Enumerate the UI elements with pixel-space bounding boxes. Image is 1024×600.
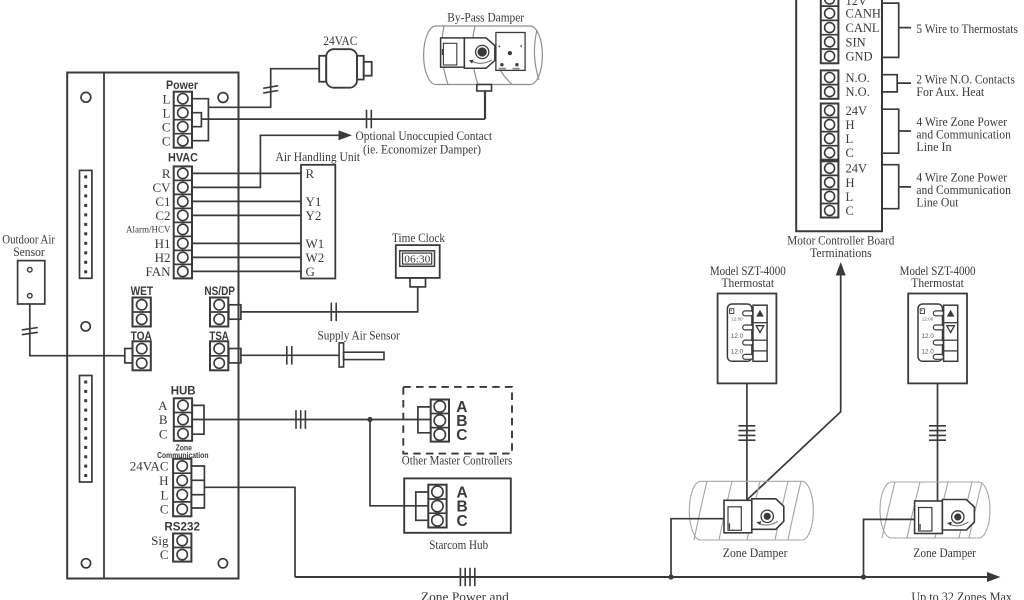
- svg-text:C: C: [160, 502, 169, 517]
- svg-text:R: R: [306, 166, 315, 181]
- svg-text:C2: C2: [155, 208, 170, 223]
- terminal block TOA: [133, 341, 151, 370]
- transformer 24VAC: [319, 49, 372, 87]
- svg-text:C: C: [846, 204, 854, 218]
- svg-text:24VAC: 24VAC: [323, 34, 357, 48]
- wire ticks 3-conductor hub: [296, 410, 305, 429]
- terminal strip MC thermostat: [821, 0, 839, 63]
- arrowhead termination pointer: [836, 262, 846, 276]
- svg-text:24V: 24V: [846, 162, 868, 176]
- junction bus zone damper 1: [668, 574, 673, 579]
- svg-text:Sensor: Sensor: [13, 245, 45, 259]
- supply air sensor probe: [339, 343, 384, 367]
- wire ticks 4-conductor thermostat 2: [929, 426, 946, 440]
- wire HUB B to other masters: [192, 419, 430, 421]
- other master controllers dashed box: [403, 387, 512, 454]
- svg-text:Starcom Hub: Starcom Hub: [429, 537, 488, 552]
- svg-text:CANL: CANL: [846, 21, 880, 35]
- terminal block HVAC: [174, 166, 192, 278]
- svg-text:A: A: [158, 398, 168, 413]
- svg-text:CV: CV: [152, 180, 171, 195]
- by-pass damper duct cylinder: [424, 26, 543, 85]
- svg-text:C: C: [159, 426, 168, 441]
- connector bracket TSA: [229, 349, 241, 363]
- svg-text:L: L: [846, 190, 854, 204]
- svg-text:B: B: [159, 412, 168, 427]
- svg-text:N.O.: N.O.: [846, 71, 870, 85]
- svg-text:C: C: [457, 513, 468, 530]
- terminal block NS/DP: [210, 298, 228, 327]
- jumper Power L1-C2: [192, 99, 208, 141]
- svg-text:L: L: [846, 132, 854, 146]
- motor controller board box: [796, 0, 882, 231]
- svg-text:CANH: CANH: [846, 7, 881, 21]
- svg-text:Time Clock: Time Clock: [392, 230, 445, 245]
- wire HVAC C1 to air handler: [192, 200, 301, 202]
- svg-text:H: H: [159, 473, 168, 488]
- svg-text:W1: W1: [306, 236, 325, 251]
- time clock: [396, 245, 440, 287]
- svg-text:Up to 32 Zones Max: Up to 32 Zones Max: [911, 589, 1012, 600]
- svg-text:W2: W2: [306, 250, 325, 265]
- jumper OMC A-C: [418, 407, 431, 433]
- svg-text:L: L: [161, 487, 169, 502]
- zone damper #2 actuator: [915, 500, 975, 534]
- svg-text:Zone Damper: Zone Damper: [723, 545, 788, 560]
- wire TSA to supply air sensor: [241, 354, 339, 356]
- wire by-pass damper drop: [484, 91, 486, 119]
- header strip lower: [80, 376, 92, 483]
- by-pass damper wiring board: [496, 33, 525, 71]
- svg-text:For Aux. Heat: For Aux. Heat: [916, 84, 984, 99]
- terminal strip MC line out: [821, 161, 839, 217]
- wire ticks 2-conductor time clock: [331, 303, 336, 322]
- svg-text:Sig: Sig: [151, 533, 169, 548]
- svg-text:Power: Power: [166, 80, 198, 92]
- thermostat #2 display: [918, 304, 944, 361]
- connector bracket NS/DP: [229, 305, 241, 319]
- svg-text:Other Master Controllers: Other Master Controllers: [402, 453, 513, 468]
- terminal strip MC aux contacts: [821, 70, 839, 98]
- wire outdoor sensor to TOA: [30, 304, 125, 356]
- wire zone comm to bus: [204, 487, 295, 577]
- svg-text:C: C: [162, 133, 171, 148]
- svg-text:5 Wire to Thermostats: 5 Wire to Thermostats: [916, 21, 1018, 36]
- jumper Power L2-C1: [192, 113, 201, 127]
- svg-text:Line In: Line In: [916, 139, 952, 154]
- svg-text:SIN: SIN: [846, 35, 866, 49]
- svg-text:12.0: 12.0: [921, 348, 934, 355]
- wire ticks 2-conductor transformer feed: [263, 86, 278, 93]
- svg-text:GND: GND: [846, 50, 873, 64]
- wire ticks 2-conductor by-pass feed: [367, 110, 372, 129]
- svg-text:C: C: [162, 119, 171, 134]
- terminal block Other Master Controllers: [431, 400, 449, 442]
- terminal block HUB: [174, 398, 192, 441]
- wire HVAC H2 to air handler: [192, 256, 301, 258]
- thermostat #1 buttons: [753, 305, 767, 361]
- mounting hole top-left: [81, 92, 91, 102]
- wire thermostat 2 drop: [937, 383, 939, 502]
- jumper bracket Zone Communication: [192, 466, 205, 508]
- svg-text:L: L: [163, 91, 171, 106]
- svg-text:24V: 24V: [846, 104, 868, 118]
- wire Power to by-pass damper: [201, 118, 485, 120]
- jumper Starcom A-C: [416, 492, 429, 520]
- zone damper #1 duct cylinder: [689, 481, 813, 540]
- thermostat #1 display: [727, 304, 753, 361]
- terminal block Zone Communication: [173, 459, 191, 517]
- svg-text:L: L: [163, 105, 171, 120]
- svg-text:Line Out: Line Out: [916, 194, 958, 209]
- wire ticks 2-conductor outdoor sensor: [22, 328, 38, 335]
- svg-text:C: C: [846, 146, 854, 160]
- svg-text:06:30: 06:30: [404, 255, 430, 266]
- thermostat SZT-4000 #2 body: [908, 294, 967, 384]
- svg-text:G: G: [306, 264, 315, 279]
- air handling unit box: [301, 165, 335, 279]
- svg-text:By-Pass Damper: By-Pass Damper: [447, 10, 524, 25]
- wire ticks 2-conductor supply sensor: [287, 346, 292, 365]
- wire Power to transformer: [208, 69, 319, 108]
- terminal block RS232: [173, 534, 191, 562]
- by-pass damper stub: [477, 85, 492, 92]
- svg-text:Terminations: Terminations: [810, 245, 872, 260]
- svg-text:12:00: 12:00: [731, 317, 743, 322]
- svg-text:H: H: [846, 118, 855, 132]
- terminal block Power: [174, 92, 192, 148]
- header strip upper: [80, 170, 92, 278]
- mounting hole bottom-left: [81, 559, 90, 568]
- svg-text:NS/DP: NS/DP: [204, 286, 235, 298]
- wire HVAC FAN to air handler: [192, 270, 301, 272]
- junction bus zone damper 2: [861, 574, 866, 579]
- svg-text:C1: C1: [155, 194, 170, 209]
- wire bus to damper 2: [864, 519, 915, 577]
- svg-text:Air Handling Unit: Air Handling Unit: [276, 149, 361, 164]
- by-pass damper actuator: [441, 38, 495, 68]
- jumper HUB A-C: [192, 405, 204, 434]
- svg-text:(ie. Economizer Damper): (ie. Economizer Damper): [363, 141, 481, 156]
- mounting hole middle-left: [81, 322, 90, 331]
- thermostat SZT-4000 #1 body: [718, 294, 777, 384]
- mounting hole bottom-right: [218, 559, 227, 568]
- brace 5 wire: [882, 3, 911, 57]
- svg-text:Y2: Y2: [306, 208, 322, 223]
- svg-text:H2: H2: [155, 250, 171, 265]
- svg-text:12.0: 12.0: [731, 348, 744, 355]
- svg-text:Zone Power and: Zone Power and: [421, 589, 510, 600]
- terminal strip MC line in: [821, 104, 839, 160]
- wire HVAC R to air handler: [192, 172, 301, 174]
- main controller board outline: [67, 73, 238, 579]
- brace 4 wire in: [882, 109, 911, 153]
- svg-text:N.O.: N.O.: [846, 85, 870, 99]
- wire HVAC C2 to air handler: [192, 214, 301, 216]
- wire bus to damper 1: [671, 519, 724, 577]
- thermostat #2 buttons: [944, 305, 958, 361]
- svg-text:Thermostat: Thermostat: [911, 275, 964, 290]
- arrowhead optional contact: [339, 130, 353, 140]
- wire HVAC H1 to air handler: [192, 242, 301, 244]
- svg-text:WET: WET: [131, 286, 154, 298]
- svg-text:R: R: [162, 166, 171, 181]
- svg-text:12:00: 12:00: [922, 317, 934, 322]
- svg-text:C: C: [456, 427, 467, 444]
- svg-text:HVAC: HVAC: [168, 153, 198, 165]
- starcom hub box: [404, 478, 511, 532]
- svg-text:RS232: RS232: [164, 519, 200, 533]
- outdoor air sensor: [18, 261, 45, 304]
- terminal block Starcom Hub: [428, 485, 446, 528]
- svg-text:FAN: FAN: [145, 264, 171, 279]
- svg-text:12.0: 12.0: [731, 333, 744, 340]
- wire CV to optional contact: [192, 135, 340, 187]
- wire thermostat 1 drop: [746, 383, 748, 500]
- arrowhead bus: [987, 572, 1001, 582]
- zone damper #1 actuator: [724, 499, 784, 533]
- svg-text:C: C: [160, 547, 169, 562]
- wire termination pointer: [747, 274, 841, 500]
- svg-text:Zone Damper: Zone Damper: [913, 545, 976, 560]
- svg-text:H: H: [846, 176, 855, 190]
- brace 4 wire out: [882, 165, 911, 209]
- svg-text:24VAC: 24VAC: [130, 459, 169, 474]
- svg-text:H1: H1: [155, 236, 171, 251]
- wire NS/DP to time clock: [241, 287, 418, 312]
- svg-text:HUB: HUB: [171, 383, 196, 397]
- svg-text:12.0: 12.0: [921, 333, 934, 340]
- svg-text:Thermostat: Thermostat: [722, 275, 775, 290]
- brace 2 wire NO: [882, 75, 911, 92]
- svg-text:Alarm/HCV: Alarm/HCV: [126, 225, 171, 235]
- mounting hole top-right: [218, 93, 228, 103]
- connector bracket TOA: [125, 349, 133, 363]
- wire ticks 4-conductor thermostat 1: [738, 426, 755, 440]
- svg-text:Supply Air Sensor: Supply Air Sensor: [318, 327, 401, 342]
- terminal block WET: [133, 298, 151, 327]
- terminal block TSA: [210, 341, 228, 370]
- junction hub branch: [367, 417, 372, 422]
- wire branch to starcom hub: [370, 420, 428, 506]
- wire zone power bus: [295, 576, 988, 578]
- svg-text:Y1: Y1: [306, 194, 322, 209]
- wire ticks 4-conductor bus: [460, 568, 474, 586]
- zone damper #2 duct cylinder: [880, 482, 990, 538]
